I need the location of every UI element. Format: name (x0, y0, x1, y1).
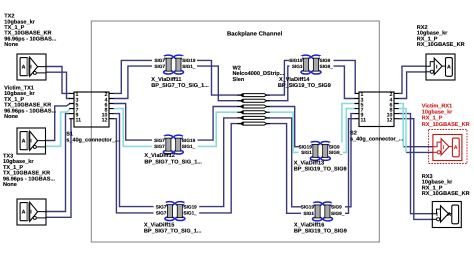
svg-text:X_ViaDiff11: X_ViaDiff11 (151, 76, 181, 82)
svg-text:SIG19: SIG19 (299, 144, 312, 150)
svg-text:SIG9: SIG9 (329, 144, 340, 150)
svg-text:None: None (4, 42, 18, 48)
svg-text:A: A (447, 64, 451, 70)
svg-text:None: None (4, 114, 18, 120)
svg-text:SIG19: SIG19 (182, 58, 195, 64)
svg-text:11: 11 (76, 117, 82, 123)
svg-text:SIG9_: SIG9_ (331, 211, 345, 217)
svg-text:RX3: RX3 (422, 174, 433, 180)
svg-text:SIG1: SIG1 (292, 63, 303, 69)
svg-text:RX_10GBASE_KR: RX_10GBASE_KR (422, 190, 470, 196)
svg-text:SIG9: SIG9 (331, 204, 342, 210)
svg-text:TX3: TX3 (3, 153, 13, 159)
svg-text:X_ViaDiff12: X_ViaDiff12 (144, 153, 174, 159)
svg-text:S2: S2 (350, 130, 357, 136)
svg-text:SIG19: SIG19 (184, 204, 197, 210)
svg-text:10gbase_kr: 10gbase_kr (417, 30, 448, 36)
svg-text:SIG1_: SIG1_ (182, 144, 196, 150)
svg-text:I: I (436, 64, 438, 70)
svg-text:s_40g_connector_...: s_40g_connector_... (66, 137, 119, 143)
svg-text:96.96ps - 10GBAS...: 96.96ps - 10GBAS... (4, 108, 56, 114)
svg-text:10gbase_kr: 10gbase_kr (3, 159, 34, 165)
svg-text:I: I (30, 138, 32, 144)
svg-text:96.96ps - 10GBAS...: 96.96ps - 10GBAS... (4, 36, 56, 42)
svg-text:None: None (3, 182, 17, 188)
svg-text:A: A (447, 212, 451, 218)
svg-text:BP_SIG7_TO_SIG_1...: BP_SIG7_TO_SIG_1... (144, 228, 202, 234)
svg-text:BP_SIG19_TO_SIG9: BP_SIG19_TO_SIG9 (278, 83, 331, 89)
svg-text:SIG19: SIG19 (182, 137, 195, 143)
svg-text:11: 11 (361, 117, 367, 123)
svg-text:W2: W2 (233, 65, 241, 71)
svg-text:A: A (22, 209, 26, 215)
svg-text:SIG1_: SIG1_ (182, 63, 196, 69)
svg-text:Victim_TX1: Victim_TX1 (4, 85, 34, 91)
svg-text:TX2: TX2 (4, 13, 14, 19)
svg-text:TX_10GBASE_KR: TX_10GBASE_KR (4, 30, 51, 36)
svg-text:X_ViaDiff15: X_ViaDiff15 (144, 222, 174, 228)
svg-text:10gbase_kr: 10gbase_kr (4, 91, 35, 97)
svg-text:X_ViaDiff16: X_ViaDiff16 (294, 222, 324, 228)
svg-text:SIG1_: SIG1_ (184, 210, 198, 216)
svg-text:X_ViaDiff13: X_ViaDiff13 (294, 160, 324, 166)
svg-text:SIG9_: SIG9_ (329, 150, 343, 156)
svg-text:RX_10GBASE_KR: RX_10GBASE_KR (417, 42, 465, 48)
svg-text:I: I (436, 212, 438, 218)
svg-text:RX_1_P: RX_1_P (422, 185, 443, 191)
svg-text:TX_1_P: TX_1_P (4, 25, 24, 31)
svg-text:BP_SIG7_TO_SIG_1...: BP_SIG7_TO_SIG_1... (151, 83, 209, 89)
svg-text:SIG1: SIG1 (301, 150, 312, 156)
svg-text:TX_1_P: TX_1_P (3, 164, 23, 170)
svg-text:Slen: Slen (233, 76, 245, 82)
svg-text:SIG7: SIG7 (154, 137, 165, 143)
svg-text:10gbase_kr: 10gbase_kr (4, 19, 35, 25)
svg-text:A: A (22, 64, 26, 70)
svg-text:RX2: RX2 (417, 24, 428, 30)
svg-text:S1: S1 (66, 131, 73, 137)
svg-text:BP_SIG7_TO_SIG_1...: BP_SIG7_TO_SIG_1... (144, 159, 202, 165)
svg-text:BP_SIG19_TO_SIG9: BP_SIG19_TO_SIG9 (294, 166, 347, 172)
svg-text:12: 12 (102, 117, 108, 123)
svg-text:SIG7: SIG7 (156, 204, 167, 210)
svg-text:RX_10GBASE_KR: RX_10GBASE_KR (422, 121, 470, 127)
svg-text:SIG19: SIG19 (289, 58, 302, 64)
svg-text:A: A (22, 138, 26, 144)
svg-text:SIG19: SIG19 (301, 204, 314, 210)
svg-text:RX_1_P: RX_1_P (422, 115, 443, 121)
svg-text:96.96ps - 10GBAS...: 96.96ps - 10GBAS... (3, 176, 55, 182)
svg-text:SIG9_: SIG9_ (320, 63, 334, 69)
svg-text:I: I (30, 64, 32, 70)
svg-text:BP_SIG19_TO_SIG9: BP_SIG19_TO_SIG9 (294, 228, 347, 234)
svg-text:SIG7: SIG7 (154, 63, 165, 69)
svg-text:12: 12 (387, 117, 393, 123)
svg-text:Victim_RX1: Victim_RX1 (422, 103, 452, 109)
svg-text:s_40g_connector_...: s_40g_connector_... (350, 136, 403, 142)
svg-text:A: A (454, 145, 458, 151)
svg-text:X_ViaDiff14: X_ViaDiff14 (279, 76, 310, 82)
svg-text:I: I (443, 145, 445, 151)
svg-text:Nelco4000_DStrip...: Nelco4000_DStrip... (233, 71, 285, 77)
svg-text:Backplane Channel: Backplane Channel (227, 30, 282, 37)
svg-text:RX_1_P: RX_1_P (417, 36, 438, 42)
svg-text:SIG7: SIG7 (154, 144, 165, 150)
svg-text:TX_10GBASE_KR: TX_10GBASE_KR (3, 170, 50, 176)
svg-text:I: I (30, 209, 32, 215)
svg-text:SIG7: SIG7 (154, 58, 165, 64)
svg-text:TX_1_P: TX_1_P (4, 96, 24, 102)
svg-text:SIG1: SIG1 (303, 211, 314, 217)
svg-text:10gbase_kr: 10gbase_kr (422, 109, 453, 115)
svg-text:SIG9: SIG9 (320, 58, 331, 64)
svg-text:SIG7: SIG7 (156, 210, 167, 216)
svg-text:TX_10GBASE_KR: TX_10GBASE_KR (4, 102, 51, 108)
svg-text:10gbase_kr: 10gbase_kr (422, 179, 453, 185)
